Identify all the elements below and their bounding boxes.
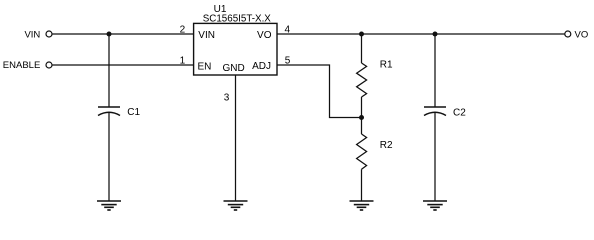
svg-text:VIN: VIN	[198, 30, 215, 41]
svg-text:VIN: VIN	[24, 30, 40, 41]
wire R1 bottom to junction	[361, 97, 363, 118]
svg-text:ADJ: ADJ	[252, 61, 271, 72]
svg-text:1: 1	[180, 56, 186, 67]
ground under C2	[423, 201, 447, 210]
wire R2 bottom to ground	[361, 169, 363, 201]
IC U1 body	[194, 23, 277, 75]
svg-text:VO: VO	[575, 30, 589, 41]
ground under R2	[350, 201, 374, 210]
wire VIN node to C1 top	[108, 34, 110, 107]
svg-text:VO: VO	[257, 30, 272, 41]
svg-text:3: 3	[224, 93, 230, 104]
svg-text:R1: R1	[380, 60, 393, 71]
junction VO/C2	[433, 32, 438, 37]
wire U1 pin 3 (GND) to ground	[235, 75, 237, 201]
wire VIN terminal to U1 pin 2	[52, 33, 193, 35]
junction VIN/C1	[107, 32, 112, 37]
svg-text:ENABLE: ENABLE	[3, 60, 41, 71]
terminal ENABLE	[46, 62, 52, 68]
wire junction to R2 top	[361, 118, 363, 135]
junction R1/R2/ADJ	[359, 115, 364, 120]
svg-text:R2: R2	[380, 140, 393, 151]
junction VO/R1	[359, 32, 364, 37]
wire VO node to C2 top	[434, 34, 436, 107]
terminal VIN	[46, 31, 52, 37]
wire U1 pin 4 to VO terminal	[277, 33, 565, 35]
wire ENABLE terminal to U1 pin 1	[52, 64, 193, 66]
svg-text:C1: C1	[127, 107, 140, 118]
svg-text:C2: C2	[453, 108, 466, 119]
svg-text:SC1565I5T-X.X: SC1565I5T-X.X	[203, 14, 272, 25]
svg-text:2: 2	[180, 25, 186, 36]
svg-text:EN: EN	[198, 62, 212, 73]
terminal VO	[565, 31, 571, 37]
ground under U1 GND pin	[224, 201, 248, 210]
wire C2 bottom to ground	[434, 112, 436, 201]
wire VO node to R1 top	[361, 34, 363, 63]
resistor R2	[357, 134, 367, 169]
svg-text:GND: GND	[222, 63, 244, 74]
wire C1 bottom to ground	[108, 112, 110, 201]
capacitor C2	[424, 107, 446, 116]
resistor R1	[357, 63, 367, 97]
ground under C1	[97, 201, 121, 210]
wire U1 pin 5 (ADJ) to R1/R2 junction	[277, 65, 362, 118]
capacitor C1	[98, 107, 120, 116]
